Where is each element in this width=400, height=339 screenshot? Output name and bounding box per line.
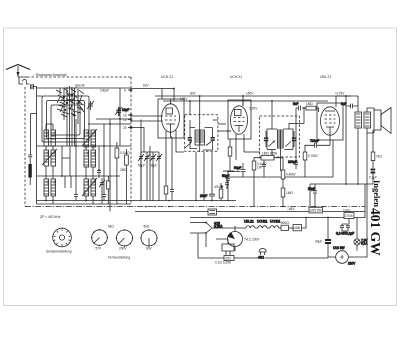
heater UBL21 bbox=[216, 219, 258, 228]
wire det rail bbox=[227, 172, 333, 183]
svg-text:Sendereinstellung: Sendereinstellung bbox=[46, 250, 72, 254]
wire dashed chassis drop bbox=[24, 87, 26, 207]
potentiometer knob P1 bbox=[91, 229, 108, 246]
speaker LS bbox=[374, 108, 391, 134]
svg-text:UCH21: UCH21 bbox=[270, 219, 281, 223]
capacitor C 30uF (filled) bbox=[315, 218, 331, 259]
svg-text:UBL21: UBL21 bbox=[244, 219, 254, 223]
svg-text:0,1A: 0,1A bbox=[361, 242, 368, 246]
svg-text:0600: 0600 bbox=[92, 151, 95, 157]
svg-text:20nF: 20nF bbox=[200, 194, 207, 198]
capacitor C 5nF anode bbox=[341, 96, 358, 108]
svg-text:0600: 0600 bbox=[52, 151, 55, 157]
capacitor C 50pF U2 bbox=[222, 171, 234, 201]
svg-text:60V: 60V bbox=[146, 247, 153, 251]
coil L1b bbox=[42, 149, 57, 166]
svg-text:UCH21: UCH21 bbox=[257, 219, 268, 223]
svg-text:50pF: 50pF bbox=[222, 174, 229, 178]
node back-panel dashed line bbox=[27, 73, 131, 77]
heater UCH21a bbox=[257, 219, 270, 228]
capacitor C 50uF + bbox=[221, 182, 229, 189]
svg-text:0,4MΩ: 0,4MΩ bbox=[286, 173, 296, 177]
resistor U50 bbox=[225, 256, 231, 260]
svg-text:700pF: 700pF bbox=[310, 139, 319, 143]
svg-text:0,7MΩ: 0,7MΩ bbox=[308, 154, 318, 158]
resistor UAB bbox=[293, 218, 306, 231]
value 50pF row bbox=[138, 164, 157, 168]
svg-text:UCH 21: UCH 21 bbox=[161, 75, 173, 79]
svg-text:0600: 0600 bbox=[92, 131, 95, 137]
capacitor C 100pF2 bbox=[288, 158, 298, 169]
capacitor C 750pF bbox=[97, 166, 101, 176]
wire speaker return bbox=[372, 130, 374, 133]
svg-text:Fernverstellung: Fernverstellung bbox=[108, 256, 130, 260]
capacitor 150pF bbox=[115, 107, 122, 116]
wire U1 grid leads bbox=[131, 116, 163, 201]
svg-text:1MΩ: 1MΩ bbox=[286, 191, 293, 195]
svg-text:401 GW: 401 GW bbox=[368, 208, 383, 256]
capacitor C 100pF det bbox=[262, 160, 266, 177]
svg-text:100pF: 100pF bbox=[288, 160, 297, 164]
lamp pilot bbox=[328, 246, 367, 266]
svg-text:0600: 0600 bbox=[45, 180, 48, 186]
svg-text:16: 16 bbox=[123, 114, 127, 118]
antenna bbox=[6, 65, 30, 78]
IF transformer T2 (dashed) bbox=[260, 116, 300, 157]
capacitor trimmer bbox=[99, 178, 105, 189]
capacitor C 0.1uF mains a bbox=[340, 224, 344, 231]
svg-text:2MΩ: 2MΩ bbox=[120, 168, 127, 172]
wire antenna lead-in bbox=[18, 77, 30, 84]
capacitor C 50uF kathode bbox=[234, 163, 246, 177]
wire T2 connections bbox=[243, 96, 304, 171]
tube U3 UBL21 bbox=[317, 96, 343, 140]
svg-text:80V: 80V bbox=[190, 91, 197, 95]
wire B+ feed vertical bbox=[345, 106, 347, 184]
svg-text:U19 3W: U19 3W bbox=[333, 246, 345, 250]
svg-text:62V: 62V bbox=[143, 84, 150, 88]
svg-text:gew.W: gew.W bbox=[75, 84, 85, 88]
shield box tuner bbox=[42, 96, 89, 142]
potentiometer knob P3 bbox=[140, 229, 157, 246]
wire bus A2 bbox=[37, 87, 43, 204]
svg-text:30pF: 30pF bbox=[122, 108, 129, 112]
label Ingelen 401 GW bbox=[368, 180, 383, 256]
wire U2 grid leads bbox=[218, 124, 244, 152]
capacitor C 5nF grid bbox=[293, 102, 300, 110]
wire mains leads bbox=[198, 233, 328, 258]
wire mid verticals bbox=[190, 101, 196, 201]
wire U1 cathode drops bbox=[162, 89, 184, 187]
svg-text:+175V: +175V bbox=[335, 92, 345, 96]
svg-text:TH.Z 230V: TH.Z 230V bbox=[244, 238, 260, 242]
voltage selector 110-5 bbox=[343, 209, 354, 224]
svg-text:50pF: 50pF bbox=[138, 164, 145, 168]
resistor 0.1ohm bbox=[215, 255, 234, 264]
svg-text:UCH 21: UCH 21 bbox=[230, 75, 242, 79]
lamp dial x bbox=[354, 218, 369, 251]
value coil windings bbox=[45, 131, 95, 186]
svg-text:U50: U50 bbox=[225, 256, 231, 260]
knob tuning dial bbox=[53, 228, 72, 247]
svg-text:15: 15 bbox=[123, 118, 127, 122]
svg-text:0,1MΩ: 0,1MΩ bbox=[120, 151, 130, 155]
resistor R cathode U1 bbox=[164, 186, 168, 201]
svg-text:0600: 0600 bbox=[85, 151, 88, 157]
capacitor C 50uF2 bbox=[308, 184, 317, 207]
capacitor C block 5nF (filled) bbox=[28, 155, 32, 185]
svg-text:0,1μF: 0,1μF bbox=[369, 176, 377, 180]
svg-text:100pF: 100pF bbox=[100, 89, 109, 93]
wire U2 anode to T2 bbox=[236, 147, 260, 160]
svg-text:50μF: 50μF bbox=[234, 166, 241, 170]
resistor R 0.4M bbox=[281, 158, 296, 188]
capacitor C 20nF U1 bbox=[170, 137, 174, 201]
resistor R 7k bbox=[371, 133, 382, 168]
svg-text:1MΩ 0,5W: 1MΩ 0,5W bbox=[262, 152, 277, 156]
junction dots tuner bbox=[45, 88, 347, 202]
svg-text:0600: 0600 bbox=[45, 131, 48, 137]
svg-text:42Ω: 42Ω bbox=[258, 256, 265, 260]
wire tuner verticals bbox=[62, 88, 126, 212]
svg-text:170•5: 170•5 bbox=[345, 214, 353, 218]
switch mains bbox=[190, 222, 223, 234]
tube U2 UCH21 bbox=[228, 100, 251, 139]
coil L1c bbox=[44, 179, 56, 196]
svg-text:800Ω: 800Ω bbox=[281, 221, 289, 225]
svg-text:57V: 57V bbox=[96, 247, 103, 251]
svg-text:7kΩ: 7kΩ bbox=[376, 155, 382, 159]
svg-text:1W: 1W bbox=[257, 165, 262, 169]
transformer plate box bbox=[222, 240, 234, 256]
svg-text:UBL 21: UBL 21 bbox=[320, 75, 331, 79]
wire transformer primary return bbox=[357, 128, 359, 184]
capacitor C 0.1uF (filled) bbox=[369, 169, 377, 185]
lamp scale bbox=[258, 248, 266, 259]
resistor block UB bbox=[208, 209, 217, 215]
capacitor C tuner bus2 bbox=[102, 190, 106, 201]
resistor R screen U2 bbox=[228, 147, 232, 171]
ground chassis dash-dot bus bbox=[25, 206, 365, 208]
coil L2c bbox=[82, 178, 97, 196]
svg-text:20: 20 bbox=[123, 126, 127, 130]
switch S1 wafer contacts bbox=[56, 86, 84, 146]
resistor R 1M 0.5W bbox=[254, 152, 283, 160]
thermal switch TH.Z bbox=[216, 226, 260, 251]
svg-text:1MΩ: 1MΩ bbox=[306, 102, 313, 106]
node 62V rail bbox=[131, 84, 174, 102]
svg-text:6: 6 bbox=[124, 89, 126, 93]
svg-text:0600: 0600 bbox=[45, 151, 48, 157]
resistor R 50k bbox=[120, 149, 128, 172]
svg-text:110V: 110V bbox=[348, 262, 356, 266]
svg-text:5kΩ: 5kΩ bbox=[144, 225, 150, 229]
IF transformer T1 (dashed) bbox=[185, 115, 218, 152]
capacitor trimmer 30pF bbox=[117, 107, 129, 116]
svg-text:150V: 150V bbox=[246, 92, 254, 96]
svg-text:200V: 200V bbox=[119, 247, 127, 251]
wire bus D bbox=[190, 217, 365, 219]
coil L2b bbox=[84, 150, 96, 167]
capacitor C-ant bbox=[30, 84, 36, 89]
resistor R 1M AVC bbox=[281, 188, 293, 207]
svg-text:0600: 0600 bbox=[52, 131, 55, 137]
resistor U65 2W bbox=[309, 207, 323, 213]
svg-text:↓ Rückwand-Anschluß: ↓ Rückwand-Anschluß bbox=[33, 73, 67, 77]
junction dots bus bbox=[145, 183, 359, 218]
svg-text:Ingelen: Ingelen bbox=[372, 180, 382, 207]
svg-text:0600: 0600 bbox=[85, 180, 88, 186]
coil L2a bbox=[82, 129, 97, 147]
svg-text:2,25V: 2,25V bbox=[249, 107, 258, 111]
wire UBL21 grid chain bbox=[296, 108, 333, 177]
svg-text:50pF: 50pF bbox=[150, 164, 157, 168]
heater UCH21b bbox=[270, 219, 281, 228]
svg-text:50μF: 50μF bbox=[308, 187, 315, 191]
terminal strip dashed line bbox=[123, 77, 132, 204]
resistor 800ohm bbox=[281, 221, 293, 230]
svg-text:5nF: 5nF bbox=[293, 102, 299, 106]
node 105V rail bbox=[163, 97, 328, 101]
wire speaker return long bbox=[366, 133, 368, 258]
svg-text:6kΩ: 6kΩ bbox=[108, 225, 114, 229]
resistor R 0.1M 1W bbox=[252, 158, 267, 207]
wire bus C bbox=[135, 211, 365, 213]
coil L1a bbox=[44, 130, 56, 146]
svg-text:ZF = 452 kHz: ZF = 452 kHz bbox=[39, 215, 61, 219]
svg-text:+: + bbox=[221, 185, 223, 189]
capacitor trimmer row U1 bbox=[138, 152, 162, 201]
wire B+ rail bbox=[310, 184, 373, 218]
resistor R 1M grid bbox=[306, 102, 316, 110]
svg-text:0600: 0600 bbox=[85, 131, 88, 137]
svg-text:–65V: –65V bbox=[287, 207, 295, 211]
wire grid lines tuner bbox=[37, 88, 132, 176]
svg-text:0,1Ω 0,25A: 0,1Ω 0,25A bbox=[215, 261, 232, 265]
capacitor C 700pF bbox=[305, 139, 330, 148]
svg-text:5nF: 5nF bbox=[341, 102, 347, 106]
svg-text:0600: 0600 bbox=[52, 180, 55, 186]
resistor R 47k 1W bbox=[214, 183, 223, 201]
svg-text:U65 2W: U65 2W bbox=[310, 209, 322, 213]
capacitor C 20nF IF bbox=[200, 152, 215, 201]
svg-text:0,1+2×0,1μF: 0,1+2×0,1μF bbox=[336, 232, 354, 236]
wire left box top bbox=[37, 87, 132, 89]
wire T1 connections bbox=[190, 96, 231, 201]
resistor R 1M bbox=[107, 176, 111, 195]
wire bus A bbox=[37, 200, 237, 202]
node 80V rail bbox=[155, 91, 351, 96]
svg-text:0600: 0600 bbox=[92, 180, 95, 186]
svg-text:110V: 110V bbox=[343, 209, 351, 213]
tube U1 UCH21 bbox=[158, 99, 184, 138]
resistor R 0.1M bbox=[115, 142, 130, 166]
transformer Tr output bbox=[336, 96, 374, 133]
resistor R 0.7M bbox=[303, 145, 318, 177]
wire bus A lower bbox=[37, 203, 132, 205]
wire coil interconnects bbox=[46, 124, 93, 204]
capacitor C 0.1uF mains b bbox=[336, 224, 354, 236]
potentiometer knob P2 bbox=[116, 229, 133, 246]
capacitor trimmer 400pF bbox=[87, 101, 94, 110]
capacitor C tuner bus1 bbox=[74, 190, 78, 201]
svg-text:30μF: 30μF bbox=[315, 240, 322, 244]
wire left box left edge bbox=[31, 114, 38, 156]
svg-text:UAB: UAB bbox=[294, 226, 301, 230]
